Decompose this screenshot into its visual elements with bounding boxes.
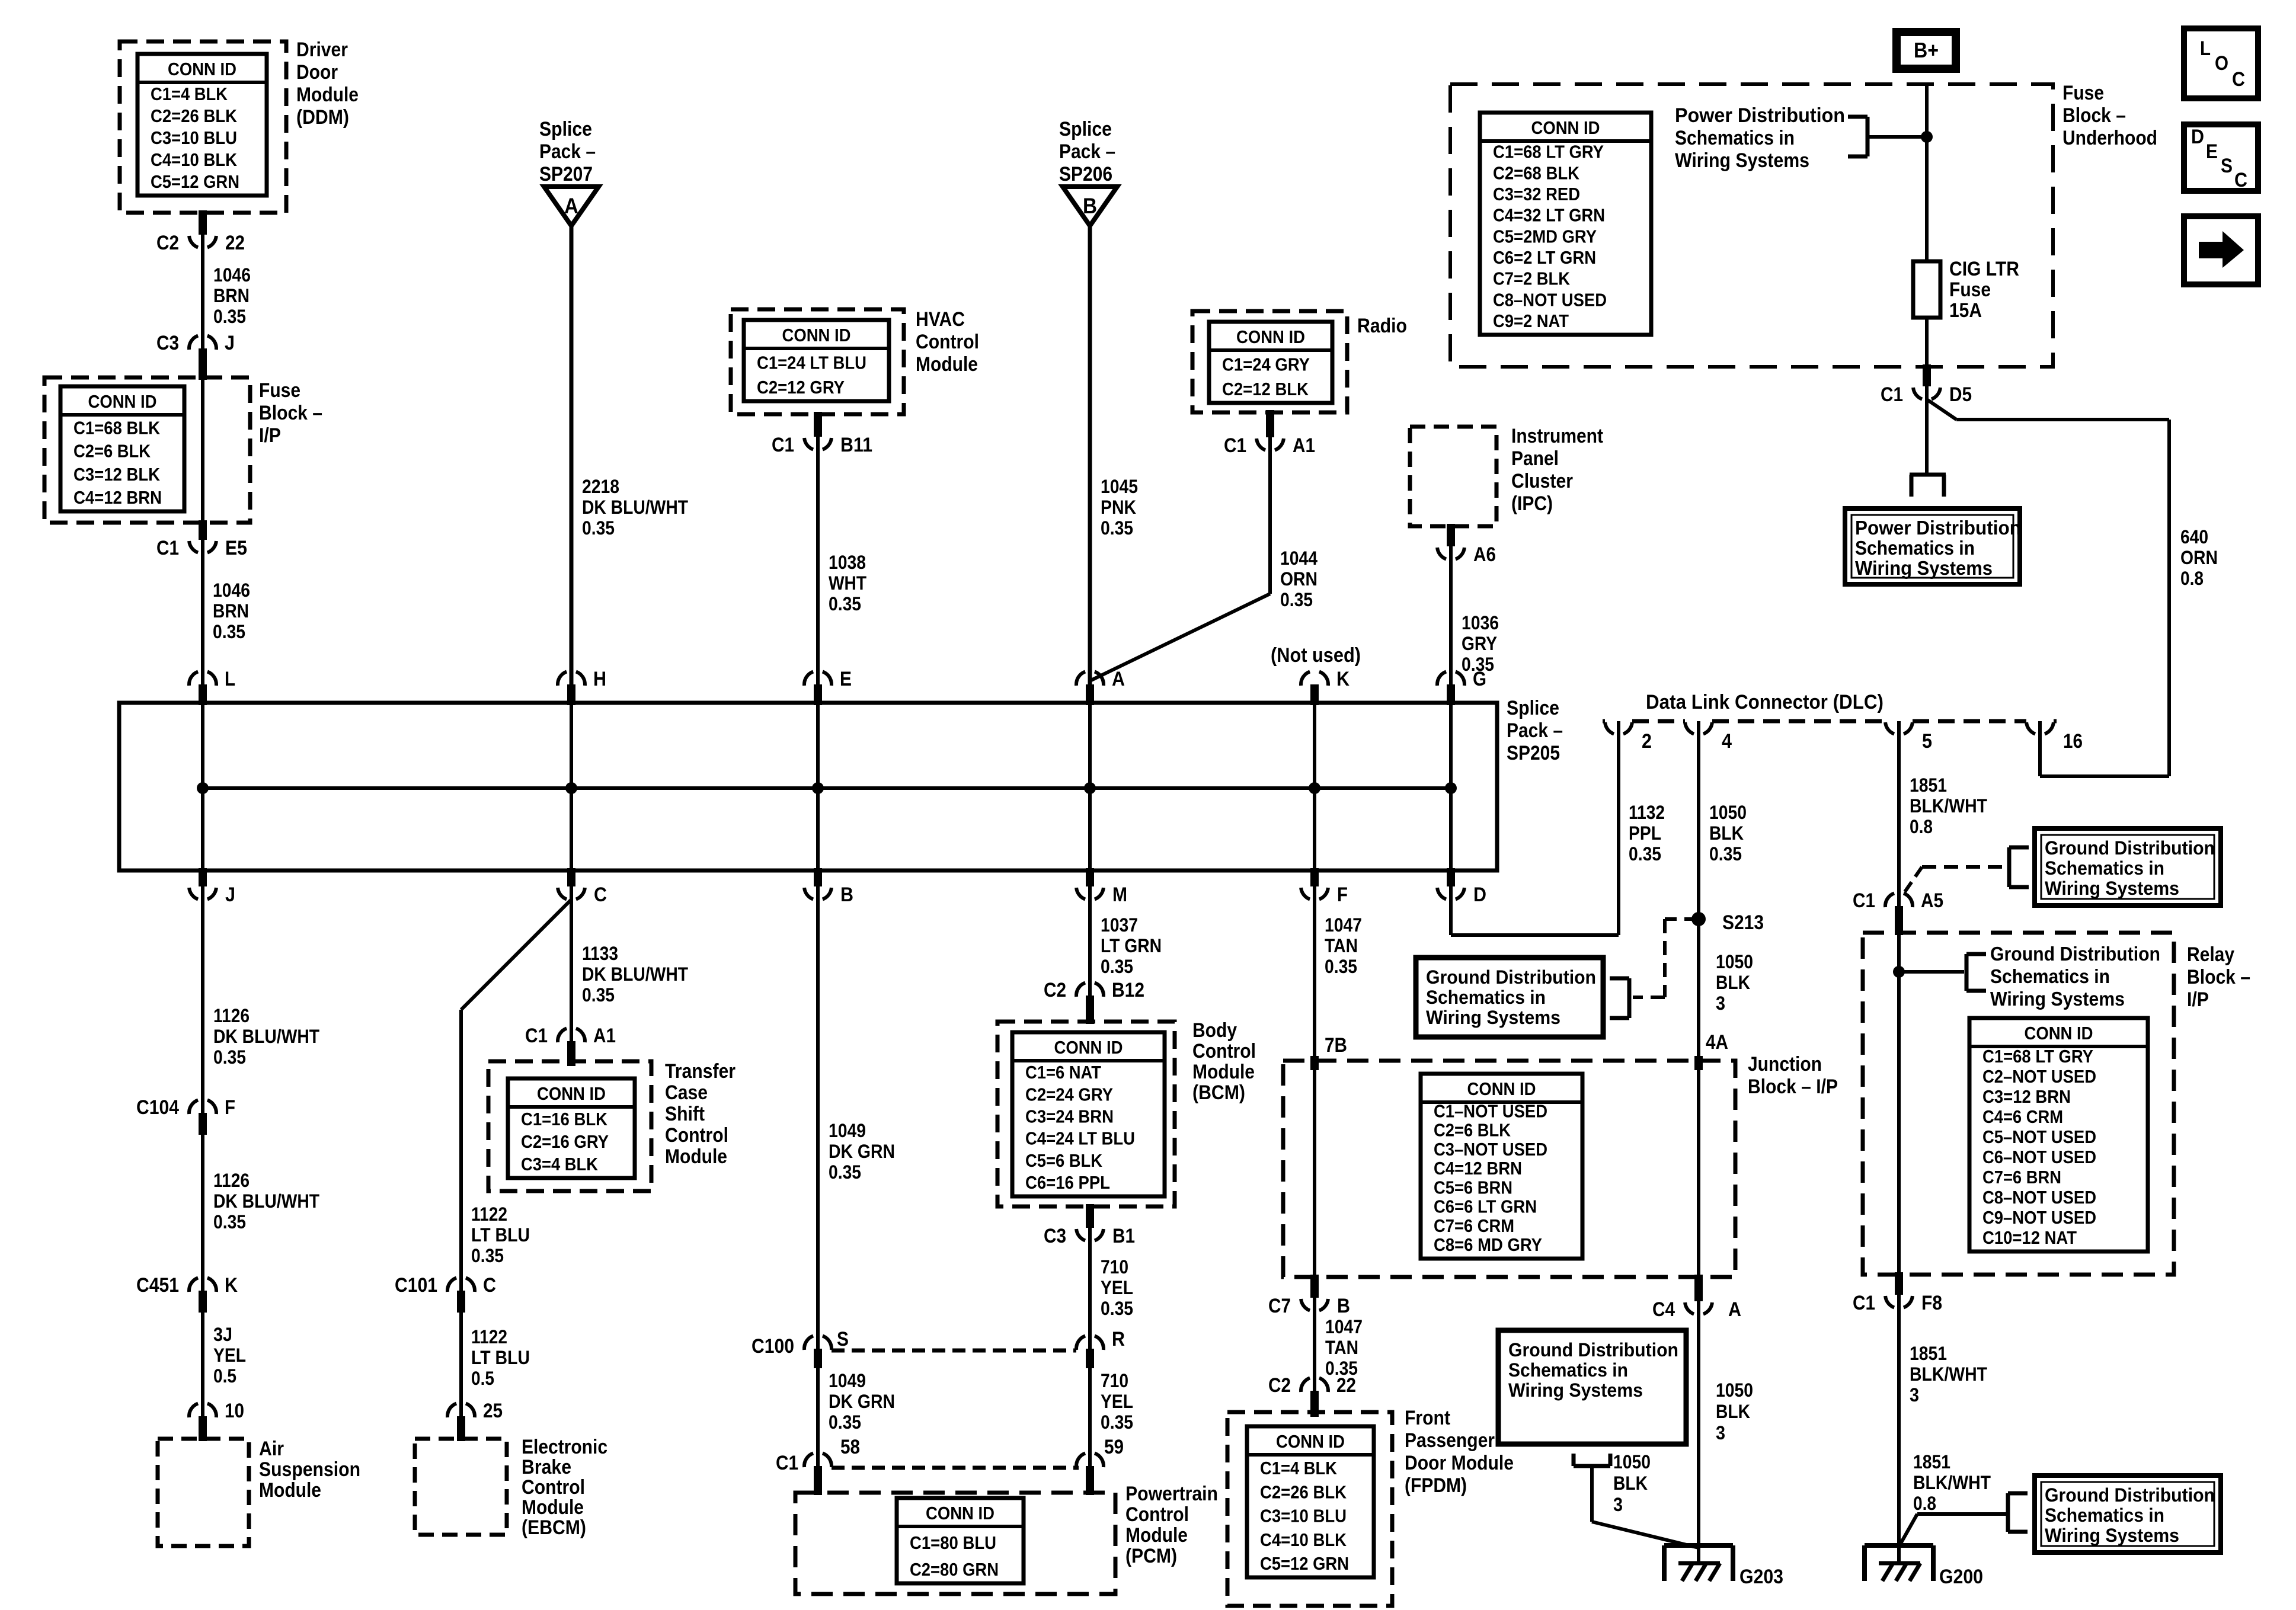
svg-text:C1=4 BLK: C1=4 BLK <box>151 84 228 104</box>
svg-text:(FPDM): (FPDM) <box>1405 1474 1467 1497</box>
svg-text:YEL: YEL <box>1101 1391 1133 1412</box>
svg-text:A5: A5 <box>1921 889 1943 912</box>
svg-text:C1=4 BLK: C1=4 BLK <box>1260 1458 1338 1478</box>
svg-text:DK GRN: DK GRN <box>829 1141 895 1162</box>
svg-text:J: J <box>225 884 235 906</box>
svg-text:Data Link Connector (DLC): Data Link Connector (DLC) <box>1646 691 1884 713</box>
svg-text:DK BLU/WHT: DK BLU/WHT <box>582 497 688 518</box>
svg-text:Passenger: Passenger <box>1405 1429 1495 1452</box>
svg-text:0.8: 0.8 <box>2180 568 2204 589</box>
svg-text:Control: Control <box>916 331 979 353</box>
svg-text:L: L <box>225 668 235 690</box>
svg-text:C3: C3 <box>1044 1225 1066 1247</box>
svg-text:C3=12 BLK: C3=12 BLK <box>73 464 161 485</box>
svg-text:LT BLU: LT BLU <box>471 1347 530 1368</box>
svg-text:YEL: YEL <box>1101 1277 1133 1298</box>
svg-text:Suspension: Suspension <box>259 1458 360 1481</box>
svg-text:710: 710 <box>1101 1370 1128 1391</box>
svg-text:BLK: BLK <box>1716 1401 1750 1422</box>
svg-text:C1=16 BLK: C1=16 BLK <box>521 1109 608 1129</box>
svg-text:1049: 1049 <box>829 1120 866 1141</box>
svg-text:C6=2 LT GRN: C6=2 LT GRN <box>1493 247 1596 268</box>
svg-text:CONN ID: CONN ID <box>168 59 236 79</box>
svg-text:C6=16 PPL: C6=16 PPL <box>1025 1172 1110 1193</box>
svg-text:C: C <box>483 1274 496 1297</box>
svg-text:C8–NOT USED: C8–NOT USED <box>1982 1187 2096 1208</box>
svg-text:Schematics in: Schematics in <box>1426 987 1546 1008</box>
svg-text:0.35: 0.35 <box>471 1245 504 1266</box>
svg-text:C: C <box>2234 169 2247 191</box>
svg-text:0.35: 0.35 <box>213 621 245 642</box>
svg-text:BLK/WHT: BLK/WHT <box>1910 795 1987 817</box>
svg-text:CONN ID: CONN ID <box>1236 327 1305 347</box>
svg-text:1047: 1047 <box>1325 914 1362 936</box>
svg-text:1046: 1046 <box>213 580 250 601</box>
svg-text:B: B <box>1083 194 1097 218</box>
svg-text:Schematics in: Schematics in <box>2045 857 2164 879</box>
svg-text:LT BLU: LT BLU <box>471 1224 530 1246</box>
svg-text:C3=24 BRN: C3=24 BRN <box>1025 1106 1114 1127</box>
svg-text:Ground Distribution: Ground Distribution <box>1426 966 1596 988</box>
svg-text:C3–NOT USED: C3–NOT USED <box>1434 1139 1547 1160</box>
svg-text:C2=26 BLK: C2=26 BLK <box>1260 1481 1347 1502</box>
svg-text:Fuse: Fuse <box>259 379 300 402</box>
svg-text:A6: A6 <box>1473 543 1496 566</box>
svg-text:C8–NOT USED: C8–NOT USED <box>1493 289 1607 310</box>
svg-text:Schematics in: Schematics in <box>1508 1359 1628 1381</box>
svg-text:CONN ID: CONN ID <box>537 1083 606 1104</box>
svg-text:R: R <box>1112 1328 1125 1350</box>
svg-text:Wiring Systems: Wiring Systems <box>1675 149 1809 172</box>
svg-text:Fuse: Fuse <box>2062 82 2104 104</box>
svg-text:C2=12 GRY: C2=12 GRY <box>757 377 845 398</box>
svg-text:(EBCM): (EBCM) <box>522 1516 586 1539</box>
svg-text:10: 10 <box>225 1400 244 1422</box>
svg-text:1851: 1851 <box>1910 1343 1947 1364</box>
svg-text:BLK/WHT: BLK/WHT <box>1913 1472 1991 1493</box>
svg-text:B12: B12 <box>1112 979 1144 1001</box>
svg-text:A1: A1 <box>1293 434 1315 457</box>
svg-text:DK BLU/WHT: DK BLU/WHT <box>582 964 688 985</box>
svg-text:C1=80 BLU: C1=80 BLU <box>910 1532 996 1553</box>
svg-text:Schematics in: Schematics in <box>1855 537 1975 559</box>
svg-text:1046: 1046 <box>213 264 251 286</box>
svg-text:Radio: Radio <box>1357 315 1407 337</box>
svg-text:Power Distribution: Power Distribution <box>1855 517 2021 539</box>
svg-text:C1: C1 <box>772 434 794 456</box>
svg-text:C9=2 NAT: C9=2 NAT <box>1493 311 1569 331</box>
svg-text:E5: E5 <box>225 537 247 559</box>
svg-text:Module: Module <box>916 353 978 376</box>
svg-text:Junction: Junction <box>1748 1053 1822 1076</box>
svg-text:0.35: 0.35 <box>1101 956 1133 977</box>
svg-text:Splice: Splice <box>1507 697 1559 719</box>
svg-text:HVAC: HVAC <box>916 308 965 331</box>
svg-text:DK BLU/WHT: DK BLU/WHT <box>213 1190 319 1212</box>
svg-text:Brake: Brake <box>522 1456 571 1478</box>
svg-text:0.5: 0.5 <box>213 1365 236 1387</box>
svg-text:Schematics in: Schematics in <box>1990 965 2110 987</box>
svg-text:Body: Body <box>1192 1019 1237 1042</box>
svg-text:Instrument: Instrument <box>1511 425 1603 447</box>
svg-text:Wiring Systems: Wiring Systems <box>1855 557 1993 579</box>
svg-text:C3=10 BLU: C3=10 BLU <box>151 127 237 148</box>
svg-text:C3=10 BLU: C3=10 BLU <box>1260 1506 1347 1526</box>
svg-text:C4=24 LT BLU: C4=24 LT BLU <box>1025 1128 1135 1149</box>
svg-text:C7=6 CRM: C7=6 CRM <box>1434 1215 1514 1236</box>
svg-text:C7=6 BRN: C7=6 BRN <box>1982 1167 2061 1188</box>
svg-text:F: F <box>225 1096 235 1119</box>
svg-text:Cluster: Cluster <box>1511 470 1573 492</box>
svg-text:D5: D5 <box>1949 383 1972 406</box>
svg-text:C2=80 GRN: C2=80 GRN <box>910 1559 999 1580</box>
svg-text:CONN ID: CONN ID <box>1467 1078 1536 1099</box>
svg-text:1036: 1036 <box>1462 612 1499 633</box>
svg-text:0.35: 0.35 <box>582 517 615 539</box>
svg-text:C2=12 BLK: C2=12 BLK <box>1222 379 1309 399</box>
svg-text:D: D <box>1473 884 1486 906</box>
svg-text:Splice: Splice <box>539 118 592 140</box>
svg-text:S213: S213 <box>1722 911 1764 934</box>
svg-text:C4=6 CRM: C4=6 CRM <box>1982 1106 2063 1127</box>
svg-text:DK GRN: DK GRN <box>829 1391 895 1412</box>
svg-text:Panel: Panel <box>1511 447 1559 470</box>
svg-text:C1–NOT USED: C1–NOT USED <box>1434 1100 1547 1121</box>
svg-text:B1: B1 <box>1112 1225 1135 1247</box>
svg-text:O: O <box>2215 52 2228 75</box>
svg-text:C1: C1 <box>156 537 179 559</box>
svg-text:C: C <box>594 884 607 906</box>
svg-text:A1: A1 <box>593 1025 616 1047</box>
svg-text:0.35: 0.35 <box>1101 517 1133 539</box>
svg-text:B: B <box>1337 1295 1350 1317</box>
svg-text:C1=68 LT GRY: C1=68 LT GRY <box>1982 1046 2093 1067</box>
svg-text:C5=12 GRN: C5=12 GRN <box>151 171 239 192</box>
svg-text:1037: 1037 <box>1101 914 1138 936</box>
svg-text:A: A <box>564 194 578 218</box>
svg-text:Module: Module <box>522 1496 584 1519</box>
svg-text:Schematics in: Schematics in <box>2045 1505 2164 1526</box>
svg-text:Pack –: Pack – <box>1507 719 1563 742</box>
svg-text:1050: 1050 <box>1613 1451 1651 1473</box>
svg-text:CIG LTR: CIG LTR <box>1949 258 2019 280</box>
svg-text:C3: C3 <box>156 332 179 354</box>
svg-text:C1: C1 <box>776 1452 798 1474</box>
svg-text:C2=26 BLK: C2=26 BLK <box>151 105 238 126</box>
svg-text:3: 3 <box>1716 993 1725 1014</box>
svg-text:BLK/WHT: BLK/WHT <box>1910 1363 1987 1385</box>
svg-text:Module: Module <box>1192 1061 1255 1083</box>
svg-text:PPL: PPL <box>1629 822 1661 844</box>
svg-text:0.35: 0.35 <box>582 984 615 1006</box>
svg-text:0.35: 0.35 <box>829 1411 861 1433</box>
svg-text:Fuse: Fuse <box>1949 279 1991 301</box>
svg-text:Wiring Systems: Wiring Systems <box>2045 1525 2179 1546</box>
svg-text:Pack –: Pack – <box>1059 140 1115 163</box>
svg-text:2218: 2218 <box>582 476 619 497</box>
svg-text:710: 710 <box>1101 1256 1128 1278</box>
svg-text:DK BLU/WHT: DK BLU/WHT <box>213 1026 319 1047</box>
svg-text:C104: C104 <box>136 1096 179 1119</box>
svg-text:H: H <box>593 668 606 690</box>
svg-text:C1: C1 <box>1881 383 1903 406</box>
svg-text:Electronic: Electronic <box>522 1436 607 1458</box>
svg-text:C: C <box>2232 68 2245 91</box>
svg-text:Door Module: Door Module <box>1405 1452 1514 1474</box>
svg-text:Module: Module <box>665 1145 727 1168</box>
svg-text:E: E <box>2206 140 2218 163</box>
svg-text:59: 59 <box>1104 1436 1124 1458</box>
svg-text:CONN ID: CONN ID <box>1531 117 1600 138</box>
svg-text:22: 22 <box>1336 1374 1356 1397</box>
svg-text:C1=68 BLK: C1=68 BLK <box>73 417 161 438</box>
svg-text:0.35: 0.35 <box>1462 654 1494 675</box>
svg-text:Wiring Systems: Wiring Systems <box>1426 1007 1560 1028</box>
svg-text:(DDM): (DDM) <box>296 106 349 129</box>
svg-text:4: 4 <box>1722 730 1732 753</box>
svg-text:Control: Control <box>665 1124 728 1147</box>
svg-text:I/P: I/P <box>259 424 281 447</box>
svg-text:C7: C7 <box>1268 1295 1291 1317</box>
svg-text:CONN ID: CONN ID <box>2025 1023 2093 1044</box>
svg-text:K: K <box>225 1274 238 1297</box>
svg-text:C8=6 MD GRY: C8=6 MD GRY <box>1434 1234 1542 1255</box>
svg-text:C2=6 BLK: C2=6 BLK <box>1434 1120 1511 1141</box>
svg-text:22: 22 <box>225 232 245 254</box>
svg-text:C1=68 LT GRY: C1=68 LT GRY <box>1493 142 1604 162</box>
svg-text:0.35: 0.35 <box>829 1161 861 1183</box>
svg-text:(PCM): (PCM) <box>1125 1545 1177 1567</box>
svg-text:C451: C451 <box>136 1274 179 1297</box>
svg-text:C1=6 NAT: C1=6 NAT <box>1025 1062 1101 1083</box>
svg-text:B+: B+ <box>1914 38 1939 62</box>
svg-text:1050: 1050 <box>1716 951 1753 972</box>
svg-text:C5=6 BLK: C5=6 BLK <box>1025 1150 1103 1171</box>
svg-text:1126: 1126 <box>213 1170 250 1191</box>
svg-text:Module: Module <box>1125 1524 1188 1547</box>
svg-text:1851: 1851 <box>1913 1451 1950 1473</box>
svg-text:BRN: BRN <box>213 600 249 622</box>
svg-text:I/P: I/P <box>2187 988 2209 1011</box>
svg-text:L: L <box>2200 37 2211 60</box>
svg-text:C100: C100 <box>752 1335 794 1358</box>
svg-text:Shift: Shift <box>665 1103 705 1125</box>
svg-text:C1=24 GRY: C1=24 GRY <box>1222 354 1310 375</box>
svg-text:GRY: GRY <box>1462 633 1497 654</box>
svg-text:YEL: YEL <box>213 1345 246 1366</box>
svg-text:1044: 1044 <box>1280 548 1318 569</box>
svg-text:C2: C2 <box>156 232 179 254</box>
svg-text:1851: 1851 <box>1910 774 1947 796</box>
svg-text:1049: 1049 <box>829 1370 866 1391</box>
svg-text:G203: G203 <box>1739 1566 1783 1588</box>
svg-text:C2=6 BLK: C2=6 BLK <box>73 441 151 462</box>
svg-text:C10=12 NAT: C10=12 NAT <box>1982 1227 2077 1248</box>
svg-text:C1: C1 <box>1224 434 1246 457</box>
svg-text:4A: 4A <box>1706 1031 1728 1054</box>
svg-text:A: A <box>1728 1298 1741 1321</box>
svg-text:(IPC): (IPC) <box>1511 492 1553 515</box>
svg-text:C5=6 BRN: C5=6 BRN <box>1434 1177 1512 1198</box>
svg-text:Block –: Block – <box>2062 104 2126 127</box>
svg-text:1050: 1050 <box>1716 1379 1753 1401</box>
svg-text:58: 58 <box>840 1436 860 1458</box>
svg-text:(BCM): (BCM) <box>1192 1081 1245 1104</box>
svg-text:C1: C1 <box>525 1025 548 1047</box>
svg-text:CONN ID: CONN ID <box>88 391 157 412</box>
svg-text:CONN ID: CONN ID <box>926 1503 994 1523</box>
svg-text:0.8: 0.8 <box>1913 1493 1936 1514</box>
svg-text:F: F <box>1337 884 1348 906</box>
svg-text:C4=10 BLK: C4=10 BLK <box>151 149 238 170</box>
svg-text:CONN ID: CONN ID <box>1054 1037 1123 1058</box>
svg-text:C1=24 LT BLU: C1=24 LT BLU <box>757 353 866 373</box>
svg-text:C4=12 BRN: C4=12 BRN <box>73 487 162 508</box>
svg-text:0.35: 0.35 <box>1280 589 1313 610</box>
svg-text:3: 3 <box>1613 1494 1623 1515</box>
svg-text:1126: 1126 <box>213 1005 250 1026</box>
svg-text:TAN: TAN <box>1325 1337 1358 1358</box>
svg-text:15A: 15A <box>1949 299 1982 322</box>
svg-text:Power Distribution: Power Distribution <box>1675 104 1845 127</box>
svg-text:3: 3 <box>1716 1422 1725 1443</box>
svg-text:25: 25 <box>483 1400 503 1422</box>
svg-text:B11: B11 <box>840 434 872 456</box>
svg-text:SP206: SP206 <box>1059 163 1112 185</box>
svg-text:Ground Distribution: Ground Distribution <box>1990 943 2160 965</box>
svg-text:0.35: 0.35 <box>213 1046 246 1068</box>
svg-text:S: S <box>837 1328 849 1350</box>
svg-text:ORN: ORN <box>1280 568 1318 590</box>
svg-text:Air: Air <box>259 1438 284 1460</box>
svg-text:Control: Control <box>1192 1040 1256 1062</box>
svg-text:C2: C2 <box>1044 979 1066 1001</box>
svg-text:C3=32 RED: C3=32 RED <box>1493 184 1580 204</box>
svg-text:Control: Control <box>1125 1503 1189 1526</box>
svg-text:C5=2MD GRY: C5=2MD GRY <box>1493 226 1597 247</box>
svg-text:C4=12 BRN: C4=12 BRN <box>1434 1158 1522 1179</box>
svg-text:C5=12 GRN: C5=12 GRN <box>1260 1553 1349 1574</box>
svg-text:C6–NOT USED: C6–NOT USED <box>1982 1147 2096 1167</box>
svg-text:Module: Module <box>259 1479 321 1502</box>
svg-text:M: M <box>1112 884 1127 906</box>
svg-text:16: 16 <box>2063 730 2083 753</box>
svg-text:Block – I/P: Block – I/P <box>1748 1076 1838 1098</box>
svg-text:C1: C1 <box>1853 889 1875 912</box>
svg-text:0.35: 0.35 <box>1325 956 1357 977</box>
svg-text:Splice: Splice <box>1059 118 1112 140</box>
svg-text:1122: 1122 <box>471 1204 507 1225</box>
svg-text:C2=16 GRY: C2=16 GRY <box>521 1131 609 1152</box>
svg-text:1122: 1122 <box>471 1326 507 1347</box>
svg-text:0.35: 0.35 <box>1629 843 1661 865</box>
svg-text:Pack –: Pack – <box>539 140 596 163</box>
svg-text:0.35: 0.35 <box>213 1211 246 1233</box>
svg-text:Module: Module <box>296 84 359 106</box>
svg-text:Powertrain: Powertrain <box>1125 1483 1218 1505</box>
svg-text:C6=6 LT GRN: C6=6 LT GRN <box>1434 1196 1537 1217</box>
svg-text:Wiring Systems: Wiring Systems <box>1508 1379 1643 1401</box>
svg-text:640: 640 <box>2180 526 2208 548</box>
svg-text:Transfer: Transfer <box>665 1060 736 1083</box>
svg-text:C4=32 LT GRN: C4=32 LT GRN <box>1493 205 1605 226</box>
svg-text:C2: C2 <box>1268 1374 1291 1397</box>
svg-text:0.35: 0.35 <box>829 593 861 614</box>
svg-text:2: 2 <box>1642 730 1652 753</box>
svg-text:1045: 1045 <box>1101 476 1138 497</box>
svg-text:1133: 1133 <box>582 943 618 964</box>
svg-text:Front: Front <box>1405 1407 1450 1429</box>
svg-text:C2–NOT USED: C2–NOT USED <box>1982 1066 2096 1087</box>
svg-text:E: E <box>840 668 852 690</box>
svg-text:C101: C101 <box>395 1274 437 1297</box>
svg-text:1050: 1050 <box>1709 802 1747 823</box>
svg-text:Door: Door <box>296 61 338 84</box>
svg-text:3J: 3J <box>213 1324 232 1345</box>
svg-text:B: B <box>840 884 853 906</box>
svg-text:Ground Distribution: Ground Distribution <box>1508 1339 1678 1361</box>
svg-text:Ground Distribution: Ground Distribution <box>2045 837 2215 859</box>
svg-text:G200: G200 <box>1939 1566 1983 1588</box>
svg-text:TAN: TAN <box>1325 935 1358 956</box>
svg-text:7B: 7B <box>1325 1034 1347 1057</box>
svg-text:C4=10 BLK: C4=10 BLK <box>1260 1529 1347 1550</box>
svg-text:C1: C1 <box>1853 1292 1875 1314</box>
svg-text:C9–NOT USED: C9–NOT USED <box>1982 1207 2096 1228</box>
svg-text:D: D <box>2191 126 2204 148</box>
svg-text:J: J <box>225 332 235 354</box>
svg-text:5: 5 <box>1922 730 1932 753</box>
svg-text:C7=2 BLK: C7=2 BLK <box>1493 268 1571 289</box>
svg-text:Block –: Block – <box>2187 966 2250 988</box>
svg-text:Control: Control <box>522 1476 585 1499</box>
svg-text:ORN: ORN <box>2180 547 2218 568</box>
svg-text:0.35: 0.35 <box>1709 843 1742 865</box>
svg-text:3: 3 <box>1910 1384 1919 1406</box>
svg-text:C3=12 BRN: C3=12 BRN <box>1982 1086 2071 1107</box>
svg-text:LT GRN: LT GRN <box>1101 935 1162 956</box>
svg-text:Case: Case <box>665 1081 708 1104</box>
svg-text:WHT: WHT <box>829 572 866 594</box>
svg-text:BRN: BRN <box>213 285 250 306</box>
svg-text:C2=68 BLK: C2=68 BLK <box>1493 162 1580 183</box>
svg-text:0.35: 0.35 <box>1101 1411 1133 1433</box>
svg-text:BLK: BLK <box>1613 1473 1648 1494</box>
svg-text:0.35: 0.35 <box>213 306 246 327</box>
svg-text:Underhood: Underhood <box>2062 127 2157 149</box>
svg-text:F8: F8 <box>1921 1292 1942 1314</box>
svg-text:C5–NOT USED: C5–NOT USED <box>1982 1126 2096 1147</box>
svg-text:0.5: 0.5 <box>471 1368 494 1389</box>
svg-text:Driver: Driver <box>296 39 348 61</box>
svg-text:C3=4 BLK: C3=4 BLK <box>521 1154 599 1174</box>
svg-text:S: S <box>2221 155 2233 177</box>
svg-text:PNK: PNK <box>1101 497 1136 518</box>
svg-text:Relay: Relay <box>2187 943 2234 966</box>
svg-text:CONN ID: CONN ID <box>782 325 851 345</box>
svg-text:C4: C4 <box>1652 1298 1675 1321</box>
svg-text:Wiring Systems: Wiring Systems <box>1990 988 2125 1010</box>
svg-text:BLK: BLK <box>1709 822 1744 844</box>
svg-text:Schematics in: Schematics in <box>1675 127 1795 149</box>
svg-text:SP205: SP205 <box>1507 742 1560 764</box>
svg-text:0.8: 0.8 <box>1910 816 1933 837</box>
svg-text:Wiring Systems: Wiring Systems <box>2045 878 2179 899</box>
svg-text:Ground Distribution: Ground Distribution <box>2045 1484 2215 1506</box>
svg-text:(Not used): (Not used) <box>1271 644 1361 667</box>
svg-text:1038: 1038 <box>829 552 866 573</box>
svg-text:CONN ID: CONN ID <box>1276 1431 1345 1452</box>
